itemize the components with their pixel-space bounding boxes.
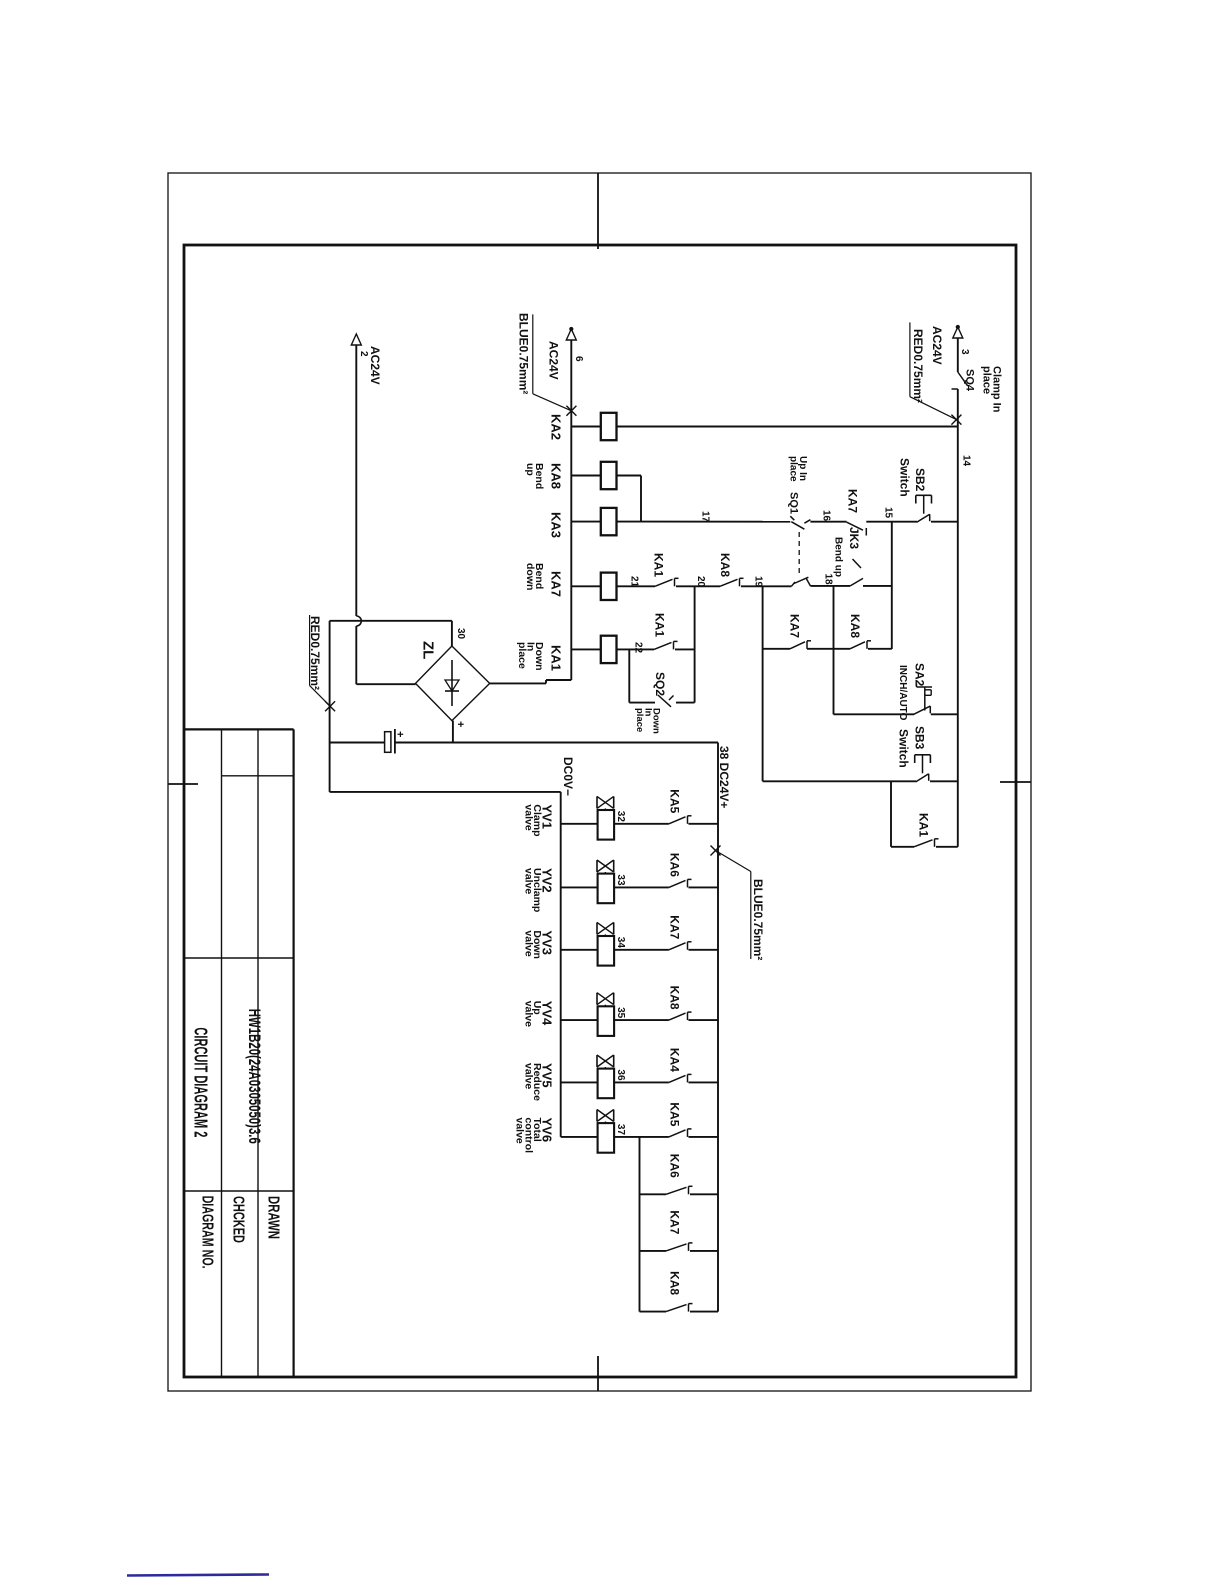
label AC24V (rail 6)	[547, 341, 561, 380]
label KA7 (coil)	[549, 571, 564, 597]
label YV2 description	[522, 868, 554, 912]
label YV3 description	[522, 930, 554, 959]
wire row KA6 (interlock)	[640, 1193, 719, 1195]
wire hop over AC line	[356, 616, 361, 626]
svg-text:37: 37	[615, 1124, 626, 1136]
wire rail 3 main	[957, 389, 959, 847]
svg-text:34: 34	[615, 937, 626, 949]
wire spec mark RED rail 3	[951, 415, 961, 425]
label wire number 15	[883, 507, 894, 519]
svg-text:Up In: Up In	[797, 456, 808, 481]
wire bridge bottom drop	[452, 721, 454, 743]
wire rung YV4	[561, 1019, 718, 1021]
drawing inner border	[184, 245, 1016, 1377]
label KA8 (interlock)	[668, 1271, 682, 1295]
wire 20 segment	[676, 585, 720, 587]
label wire number 14	[961, 455, 972, 467]
label Bend up (KA8)	[524, 463, 545, 489]
label wire number 17	[700, 511, 711, 523]
frame centering mark left	[597, 173, 599, 249]
frame centering mark right	[597, 1356, 599, 1391]
svg-text:KA8: KA8	[668, 986, 682, 1010]
svg-text:DRAWN: DRAWN	[265, 1196, 282, 1239]
wire 18 segment	[810, 585, 850, 587]
title text CHCKED	[229, 1196, 246, 1243]
label Bend down (KA7)	[524, 563, 545, 590]
power arrow AC24V wire 3	[953, 325, 963, 338]
label ZL	[420, 641, 437, 659]
svg-text:20: 20	[695, 576, 706, 588]
label SA2	[913, 663, 927, 687]
label Up In place SQ1	[788, 456, 809, 514]
label KA8 (interlock)	[848, 614, 862, 638]
contact KA7 (row interlock)	[790, 641, 811, 649]
label BLUE0.75mm2 (DC24V+)	[716, 851, 766, 961]
svg-text:DIAGRAM NO.: DIAGRAM NO.	[199, 1196, 216, 1269]
wire rung KA8	[571, 475, 641, 477]
wire spec mark RED (drop)	[325, 701, 335, 711]
label KA8 (wire19)	[718, 553, 732, 577]
svg-text:22: 22	[633, 642, 644, 654]
svg-text:valve: valve	[522, 868, 534, 894]
label KA7 (interlock)	[788, 614, 802, 638]
wire rung KA1	[571, 648, 654, 650]
pushbutton SB2	[916, 495, 932, 522]
label Switch (SB2)	[898, 458, 912, 497]
contact KA7 (wire16)	[847, 522, 867, 535]
svg-text:AC24V: AC24V	[368, 346, 382, 385]
svg-text:Switch: Switch	[897, 729, 911, 768]
svg-text:SQ2: SQ2	[653, 672, 667, 696]
label RED0.75mm2 (drop)	[308, 615, 330, 706]
wire DC0V row	[330, 791, 561, 793]
svg-text:KA1: KA1	[652, 553, 666, 577]
svg-text:30: 30	[455, 628, 466, 640]
wire SAE row	[834, 713, 958, 715]
wire rung KA7	[571, 585, 655, 587]
title text DIAGRAM NO.	[199, 1196, 216, 1269]
svg-text:ZL: ZL	[420, 641, 437, 659]
wire row KA8 (interlock)	[640, 1311, 719, 1313]
wire SQ2 branch left	[628, 649, 630, 702]
svg-text:KA7: KA7	[846, 489, 860, 513]
frame centering mark bottom	[168, 783, 198, 785]
wire KA8 contact row	[834, 648, 892, 650]
label Bend up (JK3)	[833, 537, 844, 577]
svg-text:JK3: JK3	[847, 527, 861, 549]
power arrow AC24V wire 2	[351, 334, 361, 345]
solenoid valve YV4	[597, 993, 614, 1036]
svg-text:KA1: KA1	[549, 645, 564, 671]
wire SB3 row	[763, 780, 958, 782]
wire DC0V bus	[560, 792, 562, 1137]
svg-text:RED0.75mm²: RED0.75mm²	[911, 329, 925, 403]
svg-text:SQ1: SQ1	[788, 492, 800, 514]
label KA7 (YV3)	[668, 915, 682, 939]
svg-text:KA1: KA1	[917, 813, 931, 837]
wire rung YV3	[561, 949, 718, 951]
title text CIRCUIT DIAGRAM 2	[191, 1027, 211, 1137]
label KA4 (YV5)	[668, 1048, 682, 1072]
rectifier ZL diamond	[416, 646, 490, 721]
contact KA4 (YV5)	[669, 1074, 692, 1082]
svg-text:KA7: KA7	[788, 614, 802, 638]
svg-text:valve: valve	[522, 1001, 534, 1027]
label KA6 (YV2)	[668, 853, 682, 877]
svg-text:up: up	[524, 463, 536, 476]
wire AC to bridge top	[330, 620, 452, 622]
switch SQ4 blade	[952, 372, 968, 389]
label SB2	[913, 468, 927, 492]
svg-text:36: 36	[615, 1069, 626, 1081]
wire 15 to bus	[931, 521, 958, 523]
label Clamp In place	[981, 366, 1003, 413]
label wire number 32	[615, 811, 626, 823]
svg-text:KA5: KA5	[668, 789, 682, 813]
svg-text:place: place	[981, 366, 993, 394]
svg-text:BLUE0.75mm²: BLUE0.75mm²	[751, 879, 765, 960]
label + (bridge)	[454, 721, 466, 727]
wire rung YV5	[561, 1081, 718, 1083]
svg-text:SB3: SB3	[913, 726, 927, 750]
svg-text:BLUE0.75mm²: BLUE0.75mm²	[517, 313, 531, 394]
label KA6 (interlock)	[668, 1154, 682, 1178]
contact KA7 (interlock)	[666, 1243, 693, 1251]
svg-text:DC0V−: DC0V−	[561, 757, 575, 796]
svg-text:SB2: SB2	[913, 468, 927, 492]
limit switch SQ1 contact 1	[790, 516, 810, 529]
label AC24V (rail 2)	[368, 346, 382, 385]
pushbutton SB3	[915, 755, 931, 782]
svg-text:16: 16	[821, 510, 832, 522]
svg-text:KA6: KA6	[668, 1154, 682, 1178]
svg-text:14: 14	[961, 455, 972, 467]
wire rung YV6	[561, 1136, 718, 1138]
contact KA5 (YV6)	[669, 1129, 692, 1137]
wire sub ladder left	[639, 1137, 641, 1312]
label + (capacitor)	[394, 731, 406, 737]
wire 22 segment	[675, 648, 695, 650]
label wire number 37	[615, 1124, 626, 1136]
svg-text:CIRCUIT DIAGRAM 2: CIRCUIT DIAGRAM 2	[191, 1027, 211, 1137]
label SQ2	[653, 672, 667, 696]
label KA8 (YV4)	[668, 986, 682, 1010]
wire bridge top drop	[451, 621, 453, 646]
label YV4 description	[522, 1001, 554, 1027]
label SQ4	[964, 369, 976, 392]
svg-text:2: 2	[358, 351, 369, 357]
svg-text:3: 3	[959, 349, 970, 355]
relay coil KA8	[601, 462, 617, 489]
label wire number 18	[823, 574, 834, 586]
wire rail AC24V-2	[355, 345, 357, 616]
svg-text:KA8: KA8	[718, 553, 732, 577]
wire 18 to node	[863, 585, 892, 587]
contact KA8 (wire19)	[720, 578, 744, 586]
title text drawing number	[245, 1009, 264, 1144]
svg-text:Bend up: Bend up	[833, 537, 844, 577]
label wire number 16	[821, 510, 832, 522]
svg-text:INCH/AUTO: INCH/AUTO	[897, 665, 908, 721]
svg-text:valve: valve	[522, 930, 534, 956]
label YV6 description	[514, 1118, 555, 1154]
svg-text:KA6: KA6	[668, 853, 682, 877]
relay coil KA3	[601, 508, 617, 535]
svg-text:KA5: KA5	[668, 1102, 682, 1126]
drawing outer border	[168, 173, 1031, 1391]
contact JK3	[850, 559, 863, 586]
label KA7 (wire16)	[846, 489, 860, 513]
svg-text:HW1B20(24A0305050)3.6: HW1B20(24A0305050)3.6	[245, 1009, 264, 1144]
svg-text:SA2: SA2	[913, 663, 927, 687]
svg-text:KA7: KA7	[668, 1210, 682, 1234]
label wire number 30	[455, 628, 466, 640]
svg-text:KA2: KA2	[549, 414, 564, 440]
wire DC24V+ bus	[717, 743, 719, 1312]
power arrow AC24V wire 6	[566, 327, 576, 340]
label wire number 36	[615, 1069, 626, 1081]
wire rail 3 upper stub	[957, 338, 959, 372]
wire KA7 contact row	[763, 648, 834, 650]
label KA8	[549, 463, 564, 489]
contact KA6 (interlock)	[666, 1186, 693, 1194]
label KA5 (YV6)	[668, 1102, 682, 1126]
svg-text:place: place	[788, 456, 799, 482]
label BLUE0.75mm2 rail 6	[517, 313, 572, 411]
label KA7 (interlock)	[668, 1210, 682, 1234]
mech link SQ1 dashed	[798, 532, 800, 576]
svg-text:38 DC24V+: 38 DC24V+	[717, 746, 731, 808]
label YV5 description	[522, 1063, 554, 1101]
label wire number 34	[615, 937, 626, 949]
svg-text:32: 32	[615, 811, 626, 823]
label AC24V (rail 3)	[930, 326, 944, 365]
selector switch SA2	[914, 684, 932, 715]
svg-text:KA8: KA8	[668, 1271, 682, 1295]
svg-text:valve: valve	[522, 1063, 534, 1089]
label SB3	[913, 726, 927, 750]
solenoid valve YV2	[597, 860, 614, 903]
wire node16-node18 vertical	[891, 522, 893, 649]
label KA1 (coil)	[549, 645, 564, 671]
svg-text:Switch: Switch	[898, 458, 912, 497]
label KA3	[549, 512, 564, 538]
limit switch SQ2	[658, 695, 674, 707]
contact KA5 (YV1)	[669, 816, 692, 824]
svg-text:SQ4: SQ4	[964, 369, 976, 392]
label wire number 3	[959, 349, 970, 355]
relay coil KA1	[601, 636, 617, 663]
wire cap row left	[330, 742, 385, 744]
svg-text:valve: valve	[514, 1118, 526, 1144]
wire 15 segment	[866, 521, 917, 523]
title text DRAWN	[265, 1196, 282, 1239]
frame centering mark top	[1000, 781, 1031, 783]
contact KA8 (YV4)	[669, 1012, 692, 1020]
title block grid	[185, 729, 294, 1377]
label JK3	[847, 527, 861, 549]
svg-text:33: 33	[615, 874, 626, 886]
solenoid valve YV3	[597, 922, 614, 965]
wire bridge left feed	[356, 683, 415, 685]
limit switch SQ1 contact 2	[792, 577, 811, 586]
svg-text:KA1: KA1	[653, 613, 667, 637]
wire KA1 bottom row	[891, 846, 958, 848]
svg-text:KA7: KA7	[549, 571, 564, 597]
contact KA8 (interlock)	[666, 1304, 693, 1312]
wire bus6 to bridge right jog	[490, 680, 572, 683]
svg-text:valve: valve	[522, 804, 534, 830]
svg-text:+: +	[454, 721, 466, 727]
wire row KA7 (interlock)	[640, 1250, 719, 1252]
svg-text:AC24V: AC24V	[930, 326, 944, 365]
wire rail AC24V-6	[570, 340, 572, 680]
wire rung KA2	[571, 426, 958, 428]
wire 16 segment	[810, 521, 846, 523]
svg-text:21: 21	[629, 576, 640, 588]
label KA1 (hold)	[917, 813, 931, 837]
relay coil KA2	[601, 413, 617, 440]
contact KA7 (YV3)	[669, 942, 692, 950]
svg-text:15: 15	[883, 507, 894, 519]
contact KA1 (hold)	[914, 839, 939, 847]
svg-text:KA7: KA7	[668, 915, 682, 939]
svg-text:17: 17	[700, 511, 711, 523]
wire 19 segment	[741, 585, 792, 587]
label wire number 22	[633, 642, 644, 654]
label Switch (SB3)	[897, 729, 911, 768]
wire spec mark BLUE (DC24V+)	[711, 846, 721, 856]
label KA5 (YV1)	[668, 789, 682, 813]
contact KA1 NC (wire22)	[654, 641, 678, 649]
svg-text:+: +	[394, 731, 406, 737]
wire cap row right	[395, 742, 718, 744]
label wire number 20	[695, 576, 706, 588]
label wire number 33	[615, 874, 626, 886]
svg-text:down: down	[524, 563, 536, 590]
label INCH AUTO	[897, 665, 908, 721]
wire spec mark BLUE rail 6	[566, 406, 576, 416]
wire rung YV2	[561, 886, 718, 888]
rectifier ZL diode	[445, 660, 459, 706]
label Down In place (SQ2)	[634, 708, 662, 734]
wire rail AC24V-2 lower	[355, 626, 357, 684]
solenoid valve YV5	[597, 1055, 614, 1098]
label YV1 description	[522, 804, 554, 836]
wire node18b vertical	[833, 586, 835, 715]
svg-text:KA8: KA8	[848, 614, 862, 638]
svg-text:KA4: KA4	[668, 1048, 682, 1072]
label RED0.75mm2 rail 3	[910, 322, 957, 419]
blue mark	[127, 1575, 269, 1576]
label wire number 35	[615, 1007, 626, 1019]
wire node20 vertical	[694, 586, 696, 702]
label KA1 (wire22)	[653, 613, 667, 637]
svg-text:KA8: KA8	[549, 463, 564, 489]
svg-text:place: place	[516, 642, 528, 669]
wire KA8-KA3 link	[640, 476, 642, 522]
svg-text:19: 19	[753, 576, 764, 588]
capacitor C plates	[385, 729, 395, 754]
wire rung YV1	[561, 823, 718, 825]
label 38 DC24V+	[717, 746, 731, 808]
wire KA1 parallel vertical	[890, 781, 892, 847]
svg-text:35: 35	[615, 1007, 626, 1019]
contact KA8 (row interlock)	[850, 641, 871, 649]
label wire number 2	[358, 351, 369, 357]
label wire number 6	[573, 356, 584, 362]
wire SQ2 row	[629, 702, 694, 704]
svg-text:KA3: KA3	[549, 512, 564, 538]
svg-text:CHCKED: CHCKED	[229, 1196, 246, 1243]
label wire number 21	[629, 576, 640, 588]
svg-text:6: 6	[573, 356, 584, 362]
contact KA6 (YV2)	[669, 879, 692, 887]
wire node19 vertical	[762, 586, 764, 781]
label KA2	[549, 414, 564, 440]
label Down In place (KA1)	[516, 642, 545, 671]
solenoid valve YV6	[597, 1110, 614, 1153]
solenoid valve YV1	[597, 796, 614, 839]
wire RED drop	[329, 621, 331, 792]
label KA1 (wire20)	[652, 553, 666, 577]
svg-text:AC24V: AC24V	[547, 341, 561, 380]
contact KA1 (wire20)	[655, 578, 679, 586]
label wire number 19	[753, 576, 764, 588]
relay coil KA7	[601, 573, 617, 600]
svg-text:place: place	[634, 708, 645, 732]
wire rung KA3	[571, 521, 790, 523]
label DC0V-	[561, 757, 575, 796]
